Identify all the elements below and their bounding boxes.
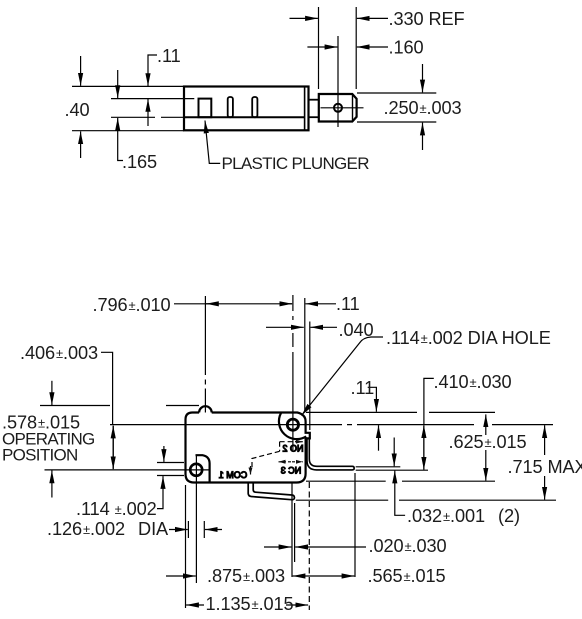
dashed terminal box arrow right top (295, 441, 303, 443)
bottom terminal (248, 483, 294, 500)
dimension .875 left arrow (166, 575, 196, 577)
dimension .40 upper arrow (80, 56, 82, 86)
side terminal lever (307, 439, 354, 470)
body right edge extension line up (304, 298, 306, 413)
dimension .625 lower arrow (485, 450, 487, 481)
dimension .040 left arrow (266, 326, 304, 328)
svg-text:.11: .11 (336, 294, 360, 314)
dimension .126 DIA arrows (169, 529, 188, 531)
plunger step line (185, 116, 305, 118)
dimension .250 lower arrow (422, 123, 424, 150)
bottom-left hole vertical center line (195, 456, 197, 583)
svg-text:.040: .040 (339, 320, 374, 340)
svg-text:.625±.015: .625±.015 (449, 432, 527, 452)
svg-text:.250±.003: .250±.003 (384, 98, 462, 118)
extension line 1.135 left (185, 485, 187, 608)
svg-text:POSITION: POSITION (2, 446, 78, 465)
extension line 1.135 right (dashed) (308, 482, 310, 610)
plunger nub (199, 406, 212, 412)
dimension .160 left arrow (307, 46, 337, 48)
svg-text:.40: .40 (65, 100, 90, 120)
svg-text:.875±.003: .875±.003 (207, 566, 285, 586)
svg-text:.410±.030: .410±.030 (434, 372, 512, 392)
extension line lever end (354, 473, 356, 577)
dimension .032 lower arrow and bracket (395, 471, 405, 516)
plunger rib 1 (199, 99, 212, 118)
bottom-left hole horizontal center line (45, 469, 211, 471)
dimension .40 extension line bottom (72, 130, 184, 132)
svg-text:.715 MAX: .715 MAX (508, 457, 582, 477)
dimension .11 (plunger) extension line mid (111, 98, 194, 100)
lever top extension line (356, 466, 401, 468)
dimension .625 upper arrow (485, 414, 487, 435)
dimension .020 arrows (264, 546, 291, 548)
dashed COM arrow down (250, 466, 252, 475)
svg-text:.11: .11 (157, 46, 181, 66)
bottom-left mounting hole (190, 464, 202, 476)
switch body outline (186, 413, 310, 483)
svg-text:.114±.002 DIA HOLE: .114±.002 DIA HOLE (386, 328, 551, 348)
dimension .165 lower arrow and bracket (118, 118, 123, 161)
plastic plunger leader (205, 121, 220, 164)
plunger body inner double line (304, 87, 306, 131)
plunger body outline (184, 87, 309, 131)
notch extension line up (309, 322, 311, 431)
dimension .410 double arrow (423, 425, 425, 469)
extension line .020 right (294, 503, 296, 562)
dimension .11 (right) bracket arrow (368, 387, 377, 412)
top-right hole boss arc (279, 413, 306, 439)
svg-text:.020±.030: .020±.030 (369, 536, 447, 556)
dimension .114 lower arrow and bracket (157, 476, 163, 509)
dimension .410 bracket (424, 378, 434, 424)
dashed NC arrows (279, 461, 292, 463)
plunger end cap outline (319, 94, 357, 122)
top-right mounting hole (287, 419, 298, 430)
hole center extension line (dashed) (292, 295, 294, 450)
dimension .165 upper arrow (117, 70, 119, 98)
bottom-left hole boss (196, 455, 210, 481)
dimension .406 bracket (101, 352, 113, 424)
dimension .330 REF left arrow (290, 17, 318, 19)
svg-text:1.135±.015: 1.135±.015 (206, 594, 294, 614)
dimension .40 lower arrow (80, 131, 82, 158)
dimension .160 right arrow (357, 46, 388, 48)
top edge extension line right (306, 411, 495, 413)
dimension .330 REF extension line left (318, 7, 320, 89)
plunger tip hole (334, 104, 342, 112)
nub center line (204, 296, 206, 413)
dimension .11 (plunger) extension line top (72, 85, 184, 87)
extension line terminal end (291, 484, 293, 578)
dashed terminal box top (280, 441, 297, 443)
plunger tip hole horizontal center line (321, 107, 364, 109)
dimension .330 REF extension line right (355, 7, 357, 89)
svg-text:.330 REF: .330 REF (389, 9, 465, 29)
svg-text:PLASTIC PLUNGER: PLASTIC PLUNGER (222, 154, 370, 173)
dimension .578 upper arrow (51, 381, 53, 405)
dashed diagonal to COM (252, 451, 280, 468)
dimension .565 double arrow (293, 575, 324, 577)
extension line .126 left (187, 521, 189, 538)
lever bottom extension line (356, 469, 428, 471)
dimension .114 upper arrow (163, 446, 165, 462)
extension line .126 right (203, 521, 205, 538)
plunger neck top line (309, 99, 319, 101)
dimension .796 line and arrows (174, 303, 292, 305)
dimension .040 right arrow (310, 326, 337, 328)
dimension .11 (plunger) lower arrow (147, 99, 149, 126)
dimension 1.135 arrows (186, 604, 204, 606)
svg-text:COM 1: COM 1 (219, 470, 248, 480)
dimension .330 REF right arrow (357, 17, 388, 19)
plunger rib 2 (228, 97, 233, 117)
dimension .406 double arrow (112, 426, 114, 469)
svg-text:.114 ±.002: .114 ±.002 (76, 499, 157, 519)
dimension .032 upper arrow (393, 438, 395, 467)
dimension .11 (plunger) bracket and arrow (148, 55, 157, 86)
dimension .11 (right) lower arrow (378, 425, 380, 451)
dimension .578 lower arrow (51, 471, 53, 498)
bottom edge extension line right (306, 480, 495, 482)
svg-text:.796±.010: .796±.010 (93, 295, 171, 315)
plunger rib 3 (252, 97, 257, 117)
dimension .165 extension line (111, 116, 184, 118)
svg-text:.11: .11 (351, 378, 375, 398)
svg-text:.160: .160 (389, 38, 424, 58)
svg-text:.126±.002DIA: .126±.002DIA (47, 519, 169, 539)
dimension .114 extension lines (157, 462, 184, 464)
leader .114 DIA HOLE (302, 337, 384, 416)
plunger neck bottom line (309, 116, 319, 118)
plunger tip hole vertical center line (337, 36, 339, 127)
nub top extension line (40, 405, 199, 407)
dimension .715 upper arrow (544, 425, 546, 455)
dimension .250 upper arrow (422, 64, 424, 92)
dimension .250 extension line bottom (357, 121, 436, 123)
svg-text:.406±.003: .406±.003 (20, 343, 98, 363)
svg-text:NC 3: NC 3 (281, 466, 302, 476)
dimension .715 lower arrow (544, 476, 546, 500)
svg-text:.165: .165 (122, 152, 157, 172)
terminal bottom extension line (296, 499, 556, 501)
dimension .250 extension line top (357, 92, 436, 94)
dashed terminal box left (279, 442, 281, 452)
svg-text:.565±.015: .565±.015 (368, 566, 446, 586)
dimension .11 (top) right arrow (305, 303, 336, 305)
plunger end cap chamfer line (352, 95, 354, 122)
svg-text:.032±.001(2): .032±.001(2) (407, 506, 520, 526)
long center line through top-right hole (110, 424, 553, 426)
